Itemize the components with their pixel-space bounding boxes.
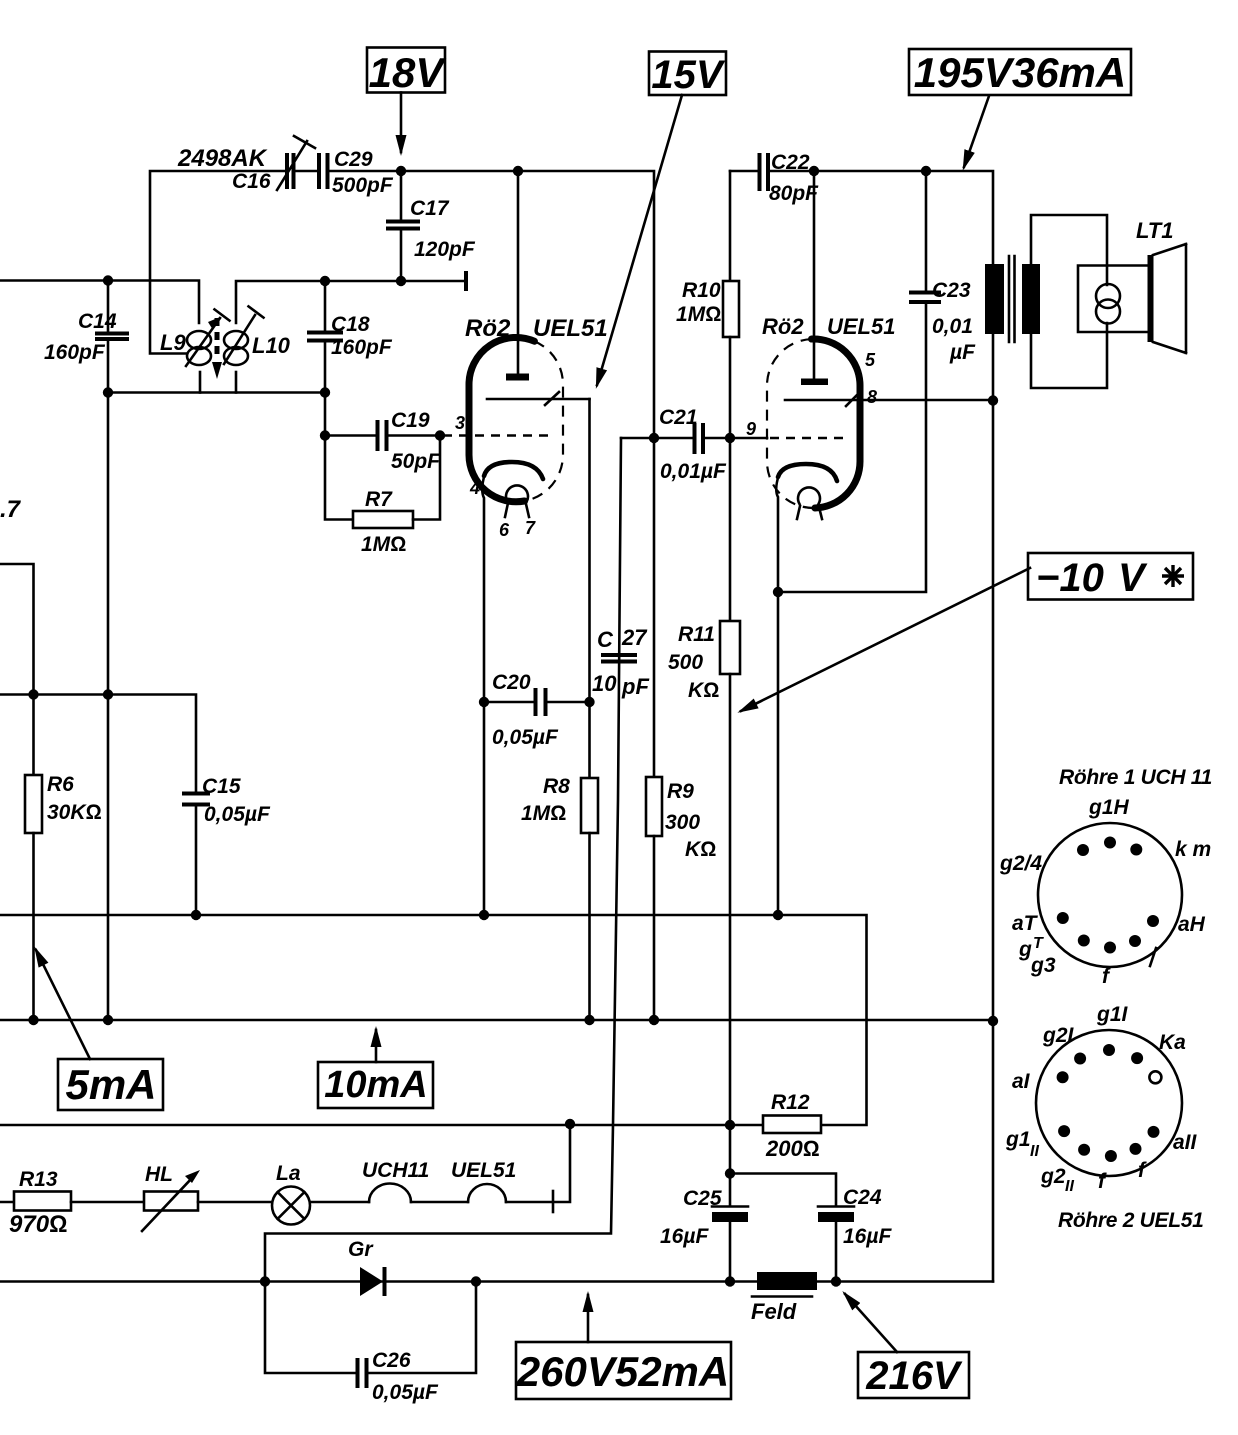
- svg-text:C24: C24: [843, 1186, 882, 1209]
- resistor R9: [646, 438, 662, 1020]
- node C25 bottom rail: [725, 1276, 735, 1286]
- capacitor C27: [601, 655, 637, 662]
- svg-text:C16: C16: [232, 170, 271, 193]
- wire tube1 screen down (R8 line): [588, 399, 591, 702]
- svg-text:aII: aII: [1173, 1131, 1198, 1154]
- svg-text:aH: aH: [1178, 913, 1206, 936]
- node C20 left: [479, 697, 489, 707]
- svg-text:−10: −10: [1036, 556, 1104, 600]
- svg-text:UCH11: UCH11: [362, 1159, 429, 1182]
- tube1 anode: [506, 171, 529, 381]
- svg-text:UEL51: UEL51: [451, 1159, 516, 1182]
- svg-text:160pF: 160pF: [331, 336, 393, 359]
- svg-text:80pF: 80pF: [769, 182, 819, 205]
- svg-text:R6: R6: [47, 773, 74, 796]
- arrow from 5mA box: [36, 950, 90, 1059]
- node C14 line bus2: [103, 1015, 113, 1025]
- svg-text:g2/4: g2/4: [999, 852, 1042, 875]
- lamp La: [272, 1187, 369, 1225]
- node C18 bottom: [320, 387, 330, 397]
- arrow from 195V box: [964, 96, 989, 167]
- node R6 bus2: [28, 1015, 38, 1025]
- wire top bus left (18V rail): [150, 171, 654, 438]
- svg-text:970Ω: 970Ω: [9, 1211, 67, 1238]
- svg-text:200Ω: 200Ω: [765, 1136, 820, 1161]
- wire L9/L10 bottom to C18: [108, 372, 325, 393]
- svg-text:II: II: [1030, 1143, 1039, 1160]
- node R7 left top: [320, 430, 330, 440]
- node C15 bottom: [191, 910, 201, 920]
- svg-text:Ka: Ka: [1159, 1031, 1186, 1054]
- wire bus2 (ground bus): [0, 1019, 993, 1022]
- trimmer capacitor C16: [277, 136, 315, 190]
- svg-text:0,05µF: 0,05µF: [204, 803, 271, 826]
- node R6 top: [28, 689, 38, 699]
- transformer secondary winding: [1022, 215, 1107, 388]
- svg-text:1MΩ: 1MΩ: [676, 303, 721, 326]
- svg-text:1MΩ: 1MΩ: [361, 533, 406, 556]
- node R11 / R12 junction: [725, 1120, 735, 1130]
- node C26 right: [471, 1276, 481, 1286]
- tube2 cathode: [776, 464, 837, 592]
- svg-text:9: 9: [746, 419, 756, 439]
- voltage box 15V: [649, 52, 726, 98]
- node R9 line / C21: [649, 433, 659, 443]
- capacitor C21: [695, 423, 768, 454]
- tube Rö2 UEL51 (triode section) envelope: [469, 337, 563, 501]
- capacitor C23: [778, 171, 941, 592]
- wire bottom rail: [0, 1280, 993, 1283]
- svg-text:Röhre 1 UCH 11: Röhre 1 UCH 11: [1059, 766, 1212, 789]
- svg-text:KΩ: KΩ: [685, 838, 716, 861]
- tube1 cathode: [482, 462, 543, 702]
- node rectifier loop left: [260, 1276, 270, 1286]
- tube2 heater: [797, 487, 822, 519]
- svg-text:10mA: 10mA: [324, 1064, 428, 1106]
- svg-text:3: 3: [455, 413, 465, 433]
- svg-text:T: T: [1033, 935, 1044, 952]
- arrow from -10V box to R11 line: [741, 568, 1030, 711]
- wire second rail y281: [0, 281, 466, 324]
- svg-text:R7: R7: [365, 488, 393, 511]
- socket diagram Röhre 1 UCH 11: [1038, 766, 1212, 967]
- tick on heater wire: [552, 1191, 555, 1212]
- heater bump UEL51: [468, 1124, 570, 1202]
- svg-text:R11: R11: [678, 623, 715, 646]
- node C14/L9 bottom: [103, 387, 113, 397]
- arrow from 10mA box: [375, 1030, 378, 1062]
- svg-text:g2I: g2I: [1042, 1024, 1075, 1047]
- svg-text:LT1: LT1: [1136, 218, 1173, 243]
- svg-text:L10: L10: [252, 333, 291, 358]
- svg-text:C21: C21: [659, 406, 698, 429]
- node C24 bottom rail: [831, 1276, 841, 1286]
- svg-text:160pF: 160pF: [44, 341, 106, 364]
- socket diagram Röhre 2 UEL51: [1036, 1030, 1203, 1232]
- capacitor C29: [319, 153, 328, 189]
- tube1 screen grid (pin with tick): [487, 392, 590, 405]
- node tube1 cathode bus1: [479, 910, 489, 920]
- node screen wire / transformer line: [988, 395, 998, 405]
- label C27 value 10pF: [592, 671, 649, 699]
- svg-text:2498AK: 2498AK: [177, 145, 268, 172]
- resistor R8: [581, 702, 598, 1020]
- svg-text:7: 7: [525, 518, 536, 538]
- svg-text:15V: 15V: [651, 53, 725, 97]
- svg-text:f: f: [1102, 965, 1111, 988]
- voltage box 260V52mA: [516, 1342, 731, 1399]
- wire transformer line down: [992, 334, 995, 1282]
- capacitor C20: [484, 688, 590, 716]
- svg-text:6: 6: [499, 520, 510, 540]
- svg-text:4: 4: [469, 478, 480, 498]
- svg-text:k m: k m: [1175, 838, 1211, 861]
- open terminal bar right of C17 node: [464, 271, 468, 291]
- wire C27 branch (C21 corner down to rectifier loop): [265, 438, 621, 1282]
- node tube2 anode top: [809, 166, 819, 176]
- tube1 control grid (dashed, pin 3): [443, 434, 553, 436]
- svg-text:UEL51: UEL51: [533, 315, 608, 342]
- tube2 anode: [801, 171, 828, 385]
- svg-text:120pF: 120pF: [414, 238, 476, 261]
- tuning core arrow between L9 and L10: [212, 318, 222, 379]
- node C20 right: [584, 697, 594, 707]
- capacitor C19: [325, 420, 440, 451]
- svg-text:.7: .7: [0, 496, 22, 523]
- voltage box -10V*: [1028, 553, 1193, 600]
- node heater chain stub: [565, 1119, 575, 1129]
- svg-text:f: f: [1138, 1159, 1147, 1182]
- svg-text:g1H: g1H: [1088, 796, 1130, 819]
- node C19 right / grid: [435, 430, 445, 440]
- node transformer line bus2: [988, 1016, 998, 1026]
- node C14 top: [103, 275, 113, 285]
- arrow from 216V box: [845, 1294, 897, 1352]
- svg-text:R12: R12: [771, 1091, 810, 1114]
- speaker voice coil: [1078, 266, 1149, 333]
- svg-text:0,05µF: 0,05µF: [372, 1381, 439, 1404]
- node tube2 cathode junction: [773, 587, 783, 597]
- svg-text:Rö2: Rö2: [465, 315, 511, 342]
- svg-text:16µF: 16µF: [660, 1225, 709, 1248]
- svg-text:aI: aI: [1012, 1070, 1031, 1093]
- svg-text:V: V: [1118, 556, 1148, 600]
- wire AVC line y694: [0, 695, 196, 794]
- arrow from 18V box: [400, 93, 403, 153]
- svg-text:C18: C18: [331, 313, 370, 336]
- node R8 bus2: [584, 1015, 594, 1025]
- wire tube2 cathode to bus1: [777, 592, 780, 915]
- svg-text:18V: 18V: [369, 49, 447, 96]
- diode Gr: [360, 1267, 385, 1296]
- svg-text:216V: 216V: [865, 1354, 963, 1398]
- svg-text:5mA: 5mA: [65, 1061, 156, 1108]
- svg-text:500: 500: [668, 651, 703, 674]
- wire bus1 (cathode bus): [0, 915, 867, 1125]
- wire C21 rail: [621, 437, 693, 440]
- voltage box 216V: [858, 1352, 969, 1398]
- svg-text:R13: R13: [19, 1168, 58, 1191]
- svg-text:g: g: [1018, 938, 1032, 961]
- capacitor C18: [307, 281, 343, 393]
- rheostat HL: [142, 1170, 272, 1231]
- speaker LT1 cone: [1148, 244, 1187, 353]
- capacitor C22: [730, 153, 993, 264]
- svg-text:C29: C29: [334, 148, 373, 171]
- transformer LT1 primary winding: [985, 264, 1004, 334]
- label C 27: [597, 625, 648, 652]
- svg-text:50pF: 50pF: [391, 450, 441, 473]
- svg-text:g2: g2: [1040, 1165, 1066, 1188]
- resistor R11: [720, 438, 740, 1125]
- transformer core: [1009, 256, 1015, 342]
- svg-text:UEL51: UEL51: [827, 314, 895, 339]
- svg-text:10: 10: [592, 671, 617, 696]
- wire heater feed line y1125: [0, 1124, 763, 1127]
- node tube1 anode top: [513, 166, 523, 176]
- svg-text:Gr: Gr: [348, 1238, 374, 1261]
- wire left stub y564: [0, 564, 34, 695]
- current box 5mA: [58, 1059, 163, 1110]
- svg-text:C23: C23: [932, 279, 971, 302]
- tube Rö2 UEL51 (output pentode) envelope: [767, 339, 860, 508]
- svg-text:16µF: 16µF: [843, 1225, 892, 1248]
- svg-text:C20: C20: [492, 671, 531, 694]
- voltage box 18V: [367, 48, 446, 97]
- svg-text:f: f: [1098, 1170, 1107, 1193]
- capacitor C15: [182, 794, 210, 916]
- svg-text:27: 27: [621, 625, 648, 650]
- svg-text:C22: C22: [771, 151, 810, 174]
- svg-text:pF: pF: [621, 674, 649, 699]
- svg-text:µF: µF: [949, 341, 976, 364]
- resistor R13: [14, 1192, 144, 1211]
- resistor R10: [723, 171, 739, 438]
- node R9 bus2: [649, 1015, 659, 1025]
- node C17 bottom: [396, 276, 406, 286]
- node C23 top: [921, 166, 931, 176]
- capacitor C14: [95, 281, 129, 393]
- node C14 line y694: [103, 689, 113, 699]
- node 18V on rail: [396, 166, 406, 176]
- heater chain wire with R13: [0, 1201, 14, 1204]
- svg-text:Röhre 2 UEL51: Röhre 2 UEL51: [1058, 1209, 1203, 1232]
- tube2 control grid (dashed, pin 9): [770, 437, 847, 439]
- svg-text:g3: g3: [1030, 954, 1056, 977]
- svg-text:La: La: [276, 1162, 301, 1185]
- wire C14 line down: [107, 393, 110, 1021]
- wire R11 line down to C25: [729, 1125, 732, 1174]
- resistor R7 with loop: [325, 436, 440, 529]
- capacitor C17: [386, 171, 420, 281]
- node C25/C24 junction: [725, 1168, 735, 1178]
- svg-text:1MΩ: 1MΩ: [521, 802, 566, 825]
- tube2 screen grid wire to transformer line: [785, 392, 993, 406]
- heater bump UCH11: [369, 1184, 468, 1202]
- svg-text:C15: C15: [202, 775, 241, 798]
- svg-text:KΩ: KΩ: [688, 679, 719, 702]
- svg-text:500pF: 500pF: [332, 174, 394, 197]
- capacitor C26 loop: [265, 1282, 476, 1389]
- svg-text:R8: R8: [543, 775, 570, 798]
- svg-text:5: 5: [865, 350, 876, 370]
- label gT g3: [1018, 935, 1056, 977]
- resistor R12: [763, 1116, 821, 1134]
- node C21 right / R10 line: [725, 433, 735, 443]
- svg-text:300: 300: [665, 811, 700, 834]
- svg-text:C14: C14: [78, 310, 117, 333]
- svg-text:g1I: g1I: [1096, 1003, 1129, 1026]
- svg-text:0,05µF: 0,05µF: [492, 726, 559, 749]
- label g2II: [1040, 1165, 1074, 1195]
- svg-text:aT: aT: [1012, 912, 1039, 935]
- tube1 heater: [505, 485, 529, 517]
- arrow from 15V box to screen wire: [597, 95, 682, 385]
- capacitor C25 (electrolytic): [712, 1174, 748, 1282]
- svg-text:L9: L9: [160, 330, 186, 355]
- svg-text:Feld: Feld: [751, 1299, 797, 1324]
- wire tube1 cathode to bus1: [483, 702, 486, 915]
- resistor R6: [25, 695, 42, 1021]
- svg-text:30KΩ: 30KΩ: [47, 801, 102, 824]
- svg-text:C26: C26: [372, 1349, 411, 1372]
- current box 10mA: [318, 1062, 433, 1108]
- arrow from 260V box: [587, 1295, 590, 1342]
- field coil Feld: [752, 1272, 817, 1297]
- label g1II: [1005, 1128, 1039, 1160]
- svg-text:R10: R10: [682, 279, 721, 302]
- node tube2 cathode bus1: [773, 910, 783, 920]
- svg-text:Rö2: Rö2: [762, 314, 804, 339]
- svg-text:195V36mA: 195V36mA: [914, 49, 1126, 96]
- svg-text:R9: R9: [667, 780, 694, 803]
- svg-text:0,01µF: 0,01µF: [660, 460, 727, 483]
- svg-text:8: 8: [867, 387, 877, 407]
- svg-text:C25: C25: [683, 1187, 722, 1210]
- svg-text:0,01: 0,01: [932, 315, 973, 338]
- node C18 top: [320, 276, 330, 286]
- voltage box 195V36mA: [909, 49, 1131, 96]
- svg-text:C19: C19: [391, 409, 430, 432]
- svg-text:260V52mA: 260V52mA: [516, 1348, 729, 1395]
- svg-text:C17: C17: [410, 197, 450, 220]
- svg-text:II: II: [1065, 1178, 1074, 1195]
- svg-text:HL: HL: [145, 1163, 173, 1186]
- svg-text:g1: g1: [1005, 1128, 1031, 1151]
- wire C18 to grid node: [324, 393, 327, 436]
- capacitor C24 (electrolytic): [730, 1174, 854, 1282]
- svg-text:C: C: [597, 627, 614, 652]
- inductor L9 (variable): [186, 309, 230, 366]
- inductor L10 (variable): [224, 306, 264, 365]
